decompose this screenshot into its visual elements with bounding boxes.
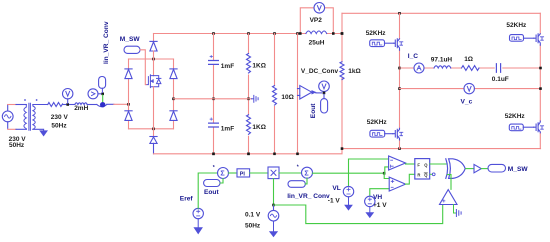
tag Eout (vertical, at sensor): [321, 94, 328, 113]
svg-text:Eout: Eout: [310, 103, 317, 118]
ground at transformer secondary: [40, 131, 47, 136]
comparator CMP2 (lower): [389, 177, 405, 191]
inverter right leg wire: [539, 13, 541, 148]
wire multiplier to summer2: [279, 172, 302, 174]
node at ammeter out: [101, 93, 104, 96]
svg-text:I_C: I_C: [408, 53, 418, 60]
source 0.1V 50Hz: [268, 205, 279, 221]
node 1kohm top: [341, 32, 344, 35]
wire top bus drop to diode D5: [153, 34, 155, 42]
wire VL to upper comparator: [349, 159, 389, 187]
svg-text:10Ω: 10Ω: [281, 94, 293, 101]
wire gate drive: [140, 50, 146, 85]
V_DC sense column wire: [297, 34, 299, 154]
wire inductor to port: [87, 104, 97, 106]
svg-text:50Hz: 50Hz: [245, 223, 261, 230]
resistor R3 10ohm: [273, 86, 277, 106]
wire node to upper comparator minus: [384, 167, 388, 173]
svg-text:PI: PI: [240, 172, 246, 178]
svg-text:M_SW: M_SW: [508, 166, 529, 173]
svg-text:2mH: 2mH: [74, 105, 88, 112]
voltmeter VP2: [314, 3, 325, 14]
node top rail center: [152, 58, 155, 61]
node top bus VP2 left: [299, 32, 302, 35]
wire node to lower comparator plus: [384, 173, 389, 178]
capacitor C2 1mF (bottom): [209, 118, 219, 127]
resistor 1ohm: [462, 66, 479, 71]
resistor R4 1kohm column wires: [341, 34, 343, 149]
svg-text:50Hz: 50Hz: [51, 123, 67, 130]
svg-text:1KΩ: 1KΩ: [252, 63, 266, 70]
svg-text:0.1 V: 0.1 V: [245, 211, 261, 218]
node top bus at sense column: [296, 32, 299, 35]
XOR gate: [446, 159, 465, 179]
wire hop under port: [97, 105, 107, 107]
svg-text:Eref: Eref: [180, 195, 194, 202]
diode D6 (boost diode bottom): [150, 137, 157, 144]
ground below VH: [366, 207, 373, 218]
VP2 loop wires: [300, 8, 333, 34]
svg-text:1mF: 1mF: [221, 63, 234, 70]
IGBT T3 (top-right): [534, 34, 544, 45]
svg-text:Σ: Σ: [304, 168, 309, 177]
flip-flop U1: [415, 159, 430, 179]
load line wire: [400, 67, 541, 69]
wire MOSFET to bottom rail: [153, 87, 155, 129]
MOSFET Q1 (M_SW): [146, 75, 161, 88]
sign comparator (zero cross): [440, 190, 458, 205]
capacitor C1 1mF (top): [209, 55, 219, 64]
node top bus VP2 right: [332, 32, 335, 35]
node left leg lower mid: [398, 87, 401, 90]
voltmeter V_c: [464, 83, 474, 93]
diode D4 (bridge lower-right): [170, 111, 177, 121]
buffer: [474, 164, 481, 172]
wire to inductor: [63, 104, 75, 106]
node upper bus at inverter left leg: [398, 12, 401, 15]
node res column middle rail: [247, 98, 250, 101]
wire source to transformer bottom: [8, 128, 16, 130]
bridge left leg wire: [128, 59, 130, 129]
multiplier block: [268, 167, 279, 179]
node bottom bus 10ohm: [273, 153, 276, 156]
diode D5 (boost diode top): [150, 41, 157, 51]
node cap column middle rail: [212, 98, 215, 101]
svg-text:lin_VR_ Conv: lin_VR_ Conv: [103, 21, 110, 64]
node top bus at 1kohm column: [341, 32, 344, 35]
svg-text:V_c: V_c: [461, 98, 473, 105]
svg-text:Q: Q: [424, 162, 428, 167]
capacitor 0.1uF: [496, 64, 500, 73]
node top bus at cap column: [212, 32, 215, 35]
node cap column bottom bus: [212, 153, 215, 156]
svg-text:1mF: 1mF: [221, 126, 234, 133]
wire secondary top: [33, 104, 48, 106]
ground right of sign comparator: [456, 210, 461, 217]
inductor 2mH: [75, 103, 87, 105]
gate tag 52KHz (top-left): [370, 40, 394, 47]
resistor (line impedance): [48, 103, 63, 107]
wire sign comparator right input to ground: [454, 205, 457, 214]
svg-text:97.1uH: 97.1uH: [431, 57, 453, 64]
AC source V1 230V 50Hz: [2, 105, 13, 129]
ground below sine source: [270, 221, 278, 237]
bridge top rail: [129, 58, 174, 60]
node bottom bus inverter left leg: [398, 147, 401, 150]
source VL: [343, 186, 353, 196]
svg-text:50Hz: 50Hz: [9, 142, 25, 149]
svg-text:25uH: 25uH: [309, 39, 325, 46]
comparator CMP1 (upper): [389, 156, 406, 170]
svg-text:Eout: Eout: [204, 189, 219, 196]
wire summer1 to PI: [229, 172, 238, 174]
ground below VL: [345, 197, 352, 210]
wire multiplier to sine node: [273, 179, 275, 205]
source VH: [365, 196, 375, 206]
svg-text:1Ω: 1Ω: [464, 56, 473, 63]
bridge bottom rail: [129, 128, 174, 130]
svg-text:52KHz: 52KHz: [366, 30, 387, 37]
wire sine to sign comparator (long): [274, 205, 443, 224]
node top bus at 10ohm column: [273, 32, 276, 35]
svg-text:VP2: VP2: [310, 17, 323, 24]
svg-text:lin_VR_ Conv: lin_VR_ Conv: [287, 193, 330, 200]
node bottom bus cap: [212, 153, 215, 156]
flipflop Qbar stub: [430, 173, 433, 175]
gate tag 52KHz (top-right): [510, 35, 534, 42]
node AC into bridge: [127, 103, 130, 106]
wire source to transformer top: [8, 104, 16, 106]
IGBT T4 (bottom-right): [534, 121, 544, 133]
top DC bus riser: [341, 13, 343, 33]
svg-text:0.1uF: 0.1uF: [492, 76, 509, 83]
ground at middle rail: [252, 95, 259, 102]
transformer polarity dots: [24, 99, 26, 101]
gate tag 52KHz (bottom-left): [370, 130, 393, 137]
tag M_SW gate: [124, 46, 140, 53]
node right leg upper mid: [539, 67, 542, 70]
node right leg lower mid: [539, 87, 542, 90]
ground below Eref: [194, 219, 202, 234]
summer S2: [302, 167, 313, 178]
node sine: [272, 204, 275, 207]
XOR to buffer: [466, 168, 474, 170]
resistor R1 1Kohm column wires: [248, 34, 250, 154]
node bottom bus 1kohm: [341, 147, 344, 150]
inductor 25uH (in top bus): [306, 31, 327, 34]
svg-text:M_SW: M_SW: [120, 36, 141, 43]
wire VH to lower comparator: [370, 189, 389, 197]
voltmeter V (230V side): [62, 89, 72, 104]
svg-text:*: *: [213, 165, 215, 171]
wire D6 to bottom bus: [153, 143, 155, 153]
node bottom rail center: [152, 128, 155, 131]
node at voltmeter: [66, 103, 69, 106]
bottom DC bus left: [154, 149, 343, 154]
tag Eout (control): [204, 180, 220, 187]
V_c line wire: [400, 88, 541, 90]
svg-text:230 V: 230 V: [51, 114, 69, 121]
node bottom bus res: [247, 153, 250, 156]
svg-text:1KΩ: 1KΩ: [252, 124, 266, 131]
resistor R2 1Kohm (bottom): [247, 115, 251, 135]
transformer TX1: [24, 103, 35, 130]
svg-text:Σ: Σ: [220, 169, 225, 178]
summer S1: [218, 168, 229, 179]
wire CMP1 to flipflop S: [406, 163, 415, 165]
diode D1 (bridge upper-left): [125, 69, 132, 79]
diode D3 (bridge upper-right): [170, 69, 177, 79]
wire summer2 to node: [313, 172, 385, 174]
node top bus at res column: [247, 32, 250, 35]
resistor R3 10ohm column wires: [274, 34, 276, 154]
port dot: [100, 102, 105, 107]
inverter left leg wire: [399, 13, 401, 148]
bottom DC bus right: [342, 148, 541, 150]
wire Eout tag to summer1: [220, 179, 223, 184]
wire secondary bottom: [33, 129, 44, 130]
wire D5 to top rail: [153, 51, 155, 59]
svg-text:1kΩ: 1kΩ: [348, 68, 360, 75]
gate tag 52KHz (bottom-right): [509, 124, 533, 131]
svg-text:52KHz: 52KHz: [367, 119, 388, 126]
node res column bottom bus: [247, 153, 250, 156]
node left leg upper mid: [398, 67, 401, 70]
wire top rail to MOSFET: [153, 59, 155, 76]
diode D2 (bridge lower-left): [125, 111, 132, 121]
buffer to M_SW tag: [481, 168, 488, 170]
wire tag node to port (green): [102, 95, 104, 102]
wire Eref to summer1: [198, 173, 217, 208]
ammeter A (input current): [88, 89, 101, 99]
svg-text:F: F: [417, 162, 420, 167]
ammeter I_C: [414, 63, 424, 73]
wire port to bridge: [107, 103, 114, 105]
voltage sensor (Eout probe): [298, 86, 322, 100]
node sensor output: [323, 92, 326, 95]
wire sign comparator to XOR: [447, 175, 451, 190]
node bridge right mid: [172, 98, 175, 101]
source Eref: [193, 208, 203, 218]
middle rail (cap midpoint): [174, 98, 252, 100]
wire lin_VR tag to summer2: [305, 178, 307, 184]
resistor R4 1kohm: [340, 62, 344, 80]
top DC bus (left, at caps level): [154, 33, 343, 35]
svg-text:-1 V: -1 V: [328, 197, 341, 204]
node comparator input: [383, 172, 386, 175]
wire CMP2 to flipflop R: [406, 174, 415, 184]
svg-text:R: R: [417, 173, 420, 178]
svg-text:Q: Q: [424, 173, 428, 178]
svg-text:*: *: [297, 165, 299, 171]
node bottom bus sense: [296, 153, 299, 156]
IGBT T2 (bottom-left): [393, 128, 403, 140]
inductor 97.1uH: [434, 66, 451, 68]
svg-text:52KHz: 52KHz: [505, 113, 526, 120]
flipflop Q to XOR: [430, 163, 447, 165]
IGBT T1 (top-left): [394, 39, 403, 50]
tag M_SW (output): [488, 164, 506, 172]
svg-text:52KHz: 52KHz: [506, 22, 527, 29]
wire bottom rail to D6: [153, 129, 155, 137]
top DC bus (right, upper level): [342, 12, 540, 14]
resistor R1 1Kohm (top): [247, 54, 251, 74]
bridge right leg wire: [173, 59, 175, 129]
PI block: [237, 169, 250, 177]
capacitor C1 1mF column wires: [213, 34, 215, 154]
wire PI to multiplier: [250, 172, 268, 174]
svg-text:VL: VL: [332, 185, 340, 192]
svg-text:V_DC_Conv: V_DC_Conv: [301, 68, 339, 75]
voltmeter V_DC_Conv: [319, 81, 330, 93]
tag lin_VR_Conv (vertical): [99, 77, 106, 89]
tag lin_VR_Conv (control): [288, 181, 305, 188]
